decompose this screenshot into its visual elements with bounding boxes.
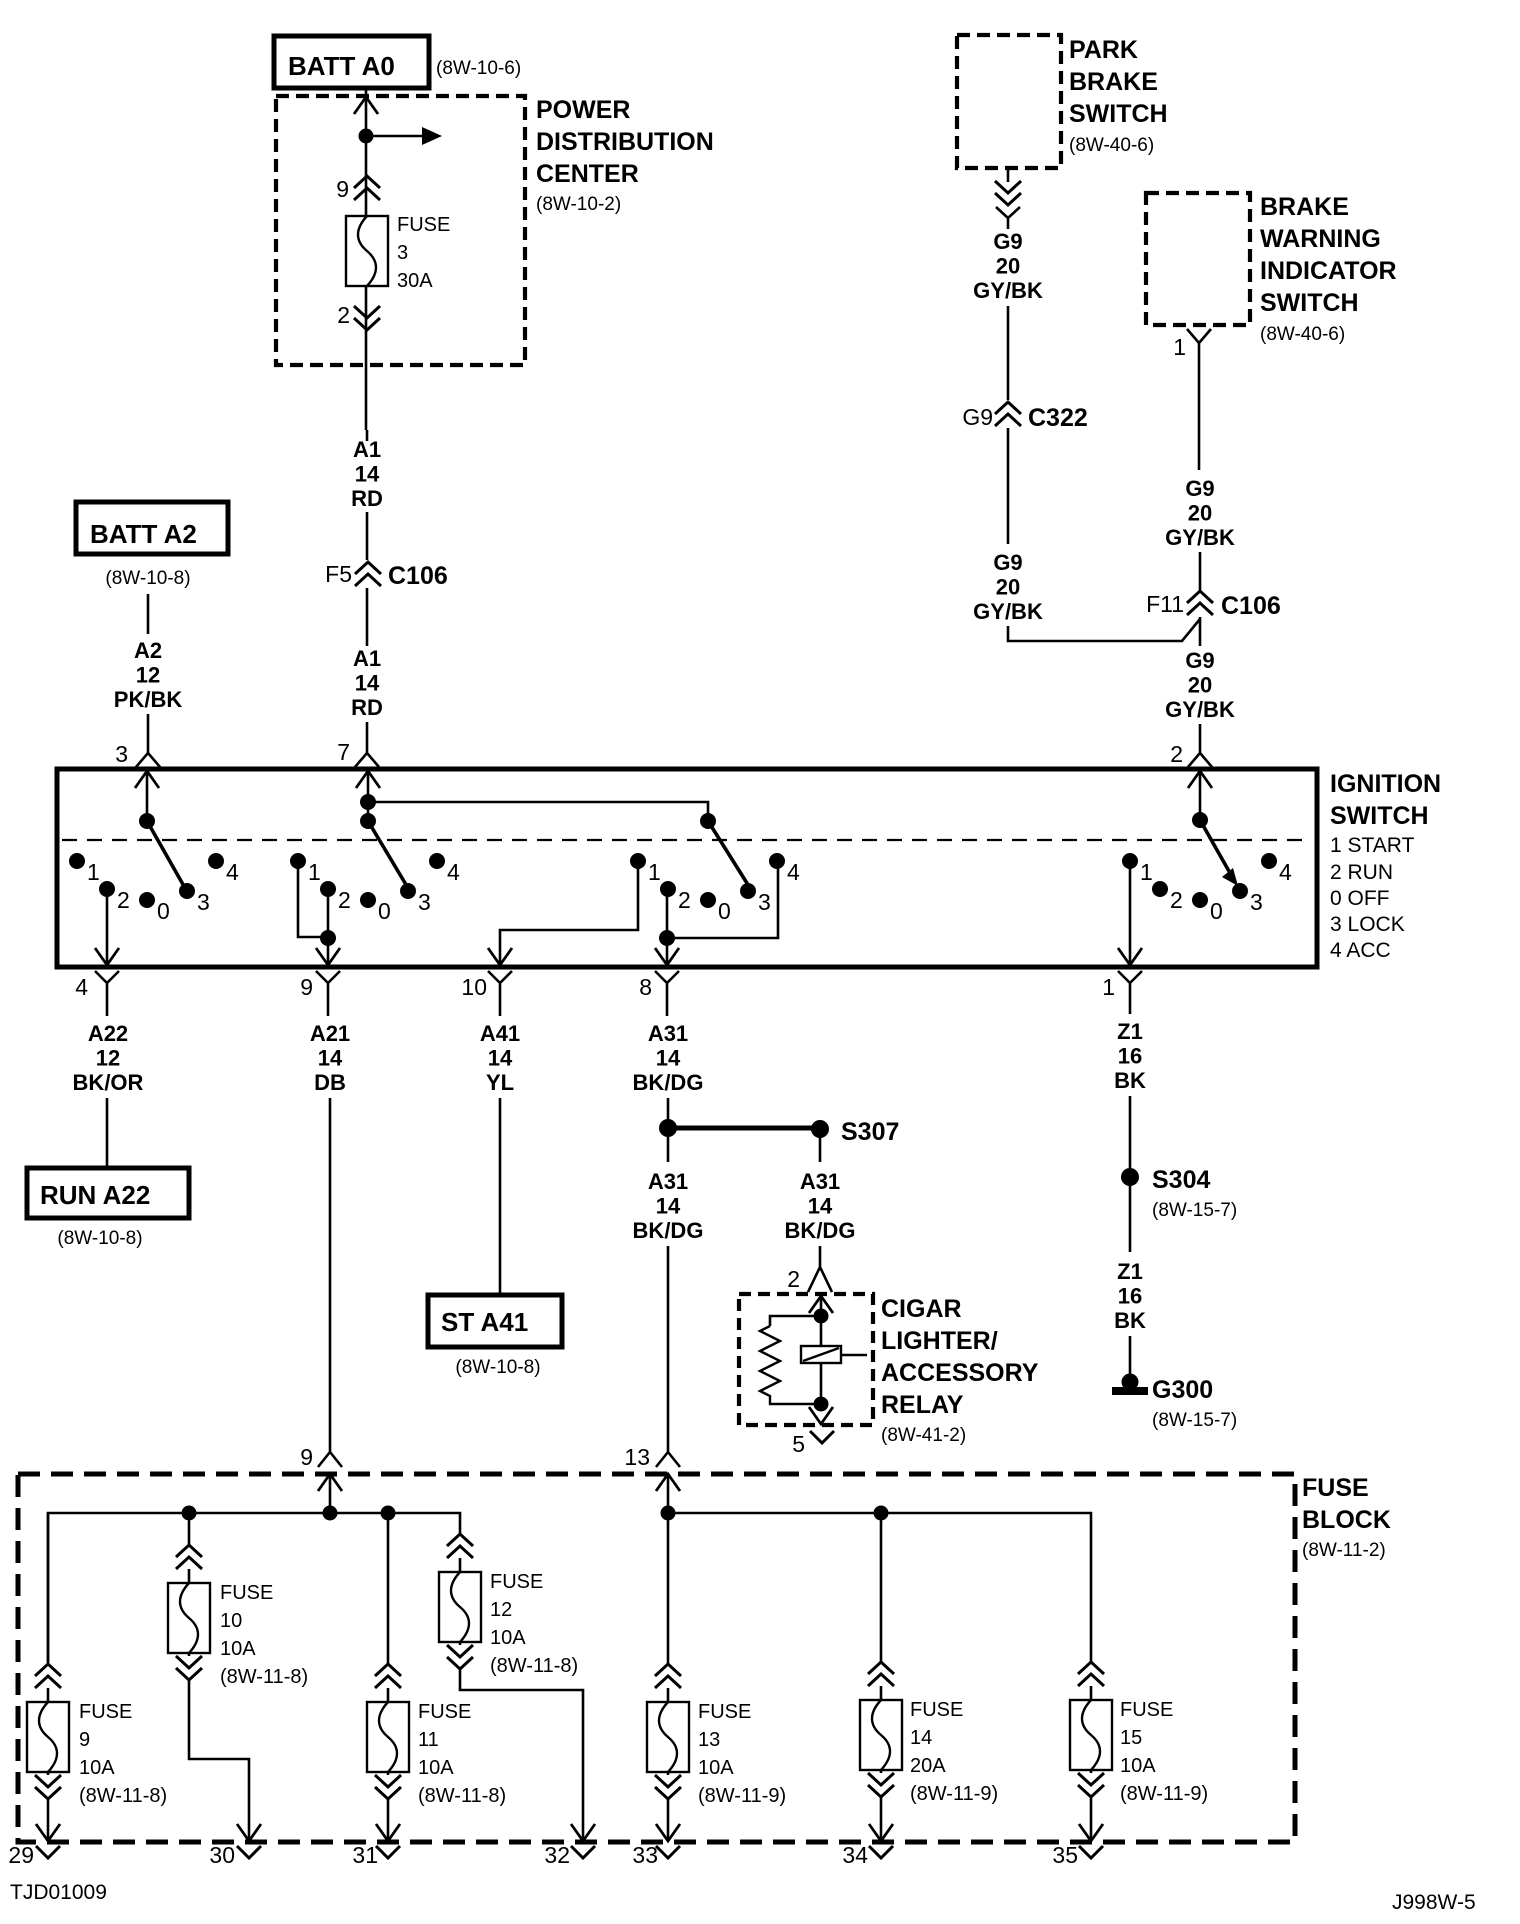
switch wafer 5 feed wire: [1199, 769, 1202, 820]
svg-text:PK/BK: PK/BK: [114, 687, 183, 712]
svg-text:C106: C106: [1221, 592, 1281, 620]
svg-text:9: 9: [300, 974, 313, 1000]
junction dot wafer 4 output: [659, 930, 675, 946]
fuse 9 input connector: [35, 1664, 61, 1688]
node BATT A2 box: [76, 502, 228, 554]
arrow out of relay: [809, 1407, 833, 1424]
contact 2 of switch wafer 3: [660, 881, 676, 897]
wire fuse 14 to cavity 34: [880, 1797, 883, 1841]
svg-text:(8W-11-2): (8W-11-2): [1302, 1540, 1386, 1561]
contact 1 of switch wafer 1: [69, 853, 85, 869]
svg-text:10A: 10A: [418, 1757, 454, 1779]
svg-text:PARK: PARK: [1069, 36, 1138, 64]
svg-text:9: 9: [79, 1729, 90, 1751]
svg-text:FUSE: FUSE: [698, 1701, 751, 1723]
contact 1 of switch wafer 3: [630, 853, 646, 869]
svg-text:20A: 20A: [910, 1755, 946, 1777]
svg-text:FUSE: FUSE: [79, 1701, 132, 1723]
fuse 9: [27, 1702, 69, 1772]
svg-text:RD: RD: [351, 486, 383, 511]
svg-text:0: 0: [718, 898, 731, 924]
svg-text:A21: A21: [310, 1021, 350, 1046]
contact 3 of switch wafer 1: [179, 883, 195, 899]
junction dot A31: [659, 1119, 677, 1137]
wire A31 below junction: [667, 1137, 670, 1162]
svg-text:1: 1: [1140, 859, 1153, 885]
svg-text:BK/DG: BK/DG: [785, 1218, 856, 1243]
wire Z1 to S304: [1129, 1096, 1132, 1168]
svg-text:F11: F11: [1146, 591, 1184, 617]
node ST A41 box: [428, 1295, 562, 1347]
cavity 33 connector: [656, 1846, 680, 1858]
bus junction dot pin 13: [661, 1506, 676, 1521]
svg-text:(8W-10-8): (8W-10-8): [57, 1228, 142, 1249]
svg-text:1 START: 1 START: [1330, 834, 1415, 857]
cavity 31 connector: [376, 1846, 400, 1858]
bus junction dot fuse 14: [874, 1506, 889, 1521]
svg-text:4: 4: [447, 859, 460, 885]
svg-text:3: 3: [115, 741, 128, 767]
svg-text:ACCESSORY: ACCESSORY: [881, 1359, 1039, 1387]
contact 0 of switch wafer 1: [139, 892, 155, 908]
fuse block dashed box: [18, 1474, 1295, 1842]
svg-text:14: 14: [318, 1046, 343, 1071]
wire pin 9 down: [327, 1000, 330, 1016]
wire A31 to splice S307: [667, 1098, 670, 1120]
relay feed wire: [820, 1296, 823, 1404]
wire pin 10 down: [499, 1000, 502, 1016]
fuse 11: [367, 1702, 409, 1772]
svg-text:A22: A22: [88, 1021, 128, 1046]
svg-text:IGNITION: IGNITION: [1330, 770, 1441, 798]
svg-text:YL: YL: [486, 1070, 514, 1095]
contact 0 of switch wafer 5: [1192, 892, 1208, 908]
fuse 12: [439, 1572, 481, 1642]
junction dot wafer 2 output: [320, 930, 336, 946]
switch wafer 5 pivot: [1192, 812, 1208, 828]
switch wafer 4 blade to LOCK: [708, 821, 750, 888]
svg-text:1: 1: [648, 859, 661, 885]
svg-text:10A: 10A: [220, 1638, 256, 1660]
fuse 9 output connector: [35, 1775, 61, 1799]
contact 1 of switch wafer 2: [290, 853, 306, 869]
svg-text:0: 0: [1210, 898, 1223, 924]
svg-text:S307: S307: [841, 1118, 899, 1146]
svg-text:4: 4: [787, 859, 800, 885]
svg-text:SWITCH: SWITCH: [1260, 289, 1359, 317]
svg-text:2: 2: [117, 887, 130, 913]
svg-text:2: 2: [678, 887, 691, 913]
cavity 29 connector: [36, 1846, 60, 1858]
svg-text:G9: G9: [993, 550, 1022, 575]
bus junction dot fuse 11: [381, 1506, 396, 1521]
svg-text:BRAKE: BRAKE: [1069, 68, 1158, 96]
svg-text:(8W-15-7): (8W-15-7): [1152, 1410, 1237, 1431]
svg-text:FUSE: FUSE: [490, 1571, 543, 1593]
svg-text:G9: G9: [1185, 648, 1214, 673]
fuse 14 input connector: [868, 1662, 894, 1686]
svg-text:15: 15: [1120, 1727, 1142, 1749]
relay coil lead to case: [841, 1354, 867, 1357]
wire pin 8 down: [666, 1000, 669, 1016]
svg-text:CENTER: CENTER: [536, 160, 639, 188]
svg-text:Z1: Z1: [1117, 1019, 1143, 1044]
svg-text:BK/DG: BK/DG: [633, 1218, 704, 1243]
svg-text:2 RUN: 2 RUN: [1330, 861, 1393, 884]
fuse 10: [168, 1583, 210, 1653]
wire to C106 F11: [1199, 552, 1202, 591]
svg-text:(8W-10-6): (8W-10-6): [436, 58, 521, 79]
svg-text:GY/BK: GY/BK: [1165, 697, 1235, 722]
wire A31 to fuse block pin 13: [667, 1246, 670, 1442]
svg-text:FUSE: FUSE: [1302, 1474, 1369, 1502]
svg-text:A1: A1: [353, 646, 381, 671]
fuse 13 input connector: [655, 1664, 681, 1688]
svg-text:20: 20: [996, 575, 1020, 600]
svg-text:GY/BK: GY/BK: [973, 599, 1043, 624]
svg-text:BATT A2: BATT A2: [90, 519, 197, 549]
fuse 15 input connector: [1078, 1662, 1104, 1686]
svg-text:BRAKE: BRAKE: [1260, 193, 1349, 221]
svg-text:DB: DB: [314, 1070, 346, 1095]
svg-text:GY/BK: GY/BK: [1165, 525, 1235, 550]
fuse F3 30A: [346, 216, 388, 286]
svg-text:(8W-10-8): (8W-10-8): [105, 568, 190, 589]
ignition switch box: [57, 769, 1317, 967]
svg-text:BK/OR: BK/OR: [73, 1070, 144, 1095]
svg-text:10: 10: [461, 974, 487, 1000]
fuse 10 output connector: [176, 1656, 202, 1680]
wire into relay pin 2: [819, 1246, 822, 1252]
wire contact 1 to junction wafer 2: [298, 866, 328, 937]
svg-text:F5: F5: [325, 561, 352, 587]
svg-text:Z1: Z1: [1117, 1259, 1143, 1284]
switch wafer 1 blade to LOCK: [147, 821, 185, 888]
wire fuse 11 to cavity 31: [387, 1799, 390, 1841]
svg-text:(8W-11-9): (8W-11-9): [1120, 1783, 1208, 1805]
wire A1 to connector C106: [366, 512, 369, 560]
svg-text:13: 13: [624, 1444, 650, 1470]
relay top junction dot: [814, 1309, 829, 1324]
wire pin 1 down: [1129, 1000, 1132, 1014]
svg-text:(8W-40-6): (8W-40-6): [1260, 324, 1345, 345]
switch wafer 1 feed wire: [146, 769, 149, 821]
svg-text:14: 14: [656, 1194, 681, 1219]
svg-text:4: 4: [226, 859, 239, 885]
svg-text:A41: A41: [480, 1021, 520, 1046]
svg-text:0: 0: [157, 898, 170, 924]
fuse block left bus wire: [48, 1513, 460, 1662]
fuse 11 output connector: [375, 1775, 401, 1799]
svg-text:G9: G9: [1185, 476, 1214, 501]
svg-text:3: 3: [758, 889, 771, 915]
wire S304 down: [1129, 1186, 1132, 1252]
wire into pin 7: [366, 722, 369, 744]
svg-text:12: 12: [136, 663, 160, 688]
wire into pin 2: [1199, 724, 1202, 744]
svg-text:2: 2: [337, 302, 350, 328]
svg-text:FUSE: FUSE: [397, 214, 450, 236]
svg-text:8: 8: [639, 974, 652, 1000]
wire junction to contact 4: [667, 866, 778, 938]
svg-text:10A: 10A: [490, 1627, 526, 1649]
fuse block right bus wire: [668, 1513, 1091, 1658]
svg-text:GY/BK: GY/BK: [973, 278, 1043, 303]
svg-text:FUSE: FUSE: [1120, 1699, 1173, 1721]
svg-text:(8W-41-2): (8W-41-2): [881, 1425, 966, 1446]
bus junction dot pin 9: [323, 1506, 338, 1521]
svg-text:3: 3: [1250, 889, 1263, 915]
relay bottom junction dot: [814, 1397, 829, 1412]
wire fuse 15 to cavity 35: [1090, 1797, 1093, 1841]
svg-text:J998W-5: J998W-5: [1392, 1891, 1476, 1914]
splice S304 dot: [1121, 1168, 1139, 1186]
relay coil resistor: [770, 1316, 821, 1326]
brake warning indicator switch dashed box: [1146, 193, 1250, 325]
svg-text:INDICATOR: INDICATOR: [1260, 257, 1397, 285]
svg-text:C322: C322: [1028, 404, 1088, 432]
wire contact 2 to pin 9: [327, 892, 330, 966]
fuse 14 output connector: [868, 1773, 894, 1797]
svg-text:29: 29: [8, 1842, 34, 1868]
wire fuse 10 to cavity 30: [189, 1680, 249, 1841]
svg-text:A1: A1: [353, 437, 381, 462]
contact 4 of switch wafer 2: [429, 853, 445, 869]
svg-text:1: 1: [87, 859, 100, 885]
relay coil: [801, 1346, 841, 1363]
wire contact 2 to pin 4: [106, 892, 109, 966]
svg-text:3 LOCK: 3 LOCK: [1330, 913, 1405, 936]
svg-text:7: 7: [337, 739, 350, 765]
svg-text:5: 5: [792, 1431, 805, 1457]
wire to ground G300: [1129, 1336, 1132, 1376]
svg-text:2: 2: [338, 887, 351, 913]
svg-text:TJD01009: TJD01009: [10, 1881, 107, 1904]
svg-text:3: 3: [197, 889, 210, 915]
switch wafer 5 blade arrow to LOCK: [1200, 820, 1230, 873]
svg-text:(8W-11-9): (8W-11-9): [698, 1785, 786, 1807]
switch wafer 2 feed wire: [367, 769, 370, 821]
svg-text:10: 10: [220, 1610, 242, 1632]
cigar lighter accessory relay dashed box: [739, 1294, 873, 1425]
svg-text:34: 34: [842, 1842, 868, 1868]
wire A21 to fuse block pin 9: [329, 1098, 332, 1442]
wire contact 2 to pin 8: [666, 892, 669, 966]
arrow into fuse block pin 13: [656, 1474, 680, 1491]
wire pin 4 to RUN A22: [106, 1000, 109, 1016]
svg-text:(8W-11-9): (8W-11-9): [910, 1783, 998, 1805]
svg-text:BK: BK: [1114, 1068, 1146, 1093]
wire C106 F11 down: [1199, 617, 1202, 646]
svg-text:4 ACC: 4 ACC: [1330, 939, 1391, 962]
contact 0 of switch wafer 2: [360, 892, 376, 908]
svg-text:2: 2: [1170, 741, 1183, 767]
svg-text:A2: A2: [134, 638, 162, 663]
wire contact 1 to pin 1: [1129, 866, 1132, 966]
svg-text:(8W-10-8): (8W-10-8): [455, 1357, 540, 1378]
svg-text:S304: S304: [1152, 1166, 1210, 1194]
svg-text:9: 9: [300, 1444, 313, 1470]
svg-text:FUSE: FUSE: [418, 1701, 471, 1723]
svg-text:1: 1: [1173, 334, 1186, 360]
svg-text:10A: 10A: [79, 1757, 115, 1779]
svg-text:G9: G9: [962, 404, 993, 430]
svg-text:A31: A31: [648, 1021, 688, 1046]
svg-text:30A: 30A: [397, 270, 433, 292]
svg-text:(8W-40-6): (8W-40-6): [1069, 135, 1154, 156]
svg-text:20: 20: [996, 254, 1020, 279]
switch wafer 2 blade to LOCK: [368, 821, 408, 888]
svg-text:31: 31: [352, 1842, 378, 1868]
park brake switch dashed box: [957, 35, 1061, 168]
svg-text:(8W-11-8): (8W-11-8): [418, 1785, 506, 1807]
svg-text:RD: RD: [351, 695, 383, 720]
svg-text:13: 13: [698, 1729, 720, 1751]
svg-text:A31: A31: [800, 1169, 840, 1194]
svg-text:14: 14: [808, 1194, 833, 1219]
svg-text:9: 9: [336, 176, 349, 202]
junction dot in PDC: [359, 129, 374, 144]
node RUN A22 box: [27, 1168, 189, 1218]
wire C106 to ignition switch pin 7: [366, 588, 369, 646]
svg-text:14: 14: [656, 1046, 681, 1071]
contact 3 of switch wafer 3: [740, 883, 756, 899]
arrow into BATT A0: [354, 97, 378, 114]
svg-text:30: 30: [209, 1842, 235, 1868]
contact 4 of switch wafer 5: [1261, 853, 1277, 869]
fuse 13 output connector: [655, 1775, 681, 1799]
contact 4 of switch wafer 1: [208, 853, 224, 869]
wire G9 to C322: [1007, 306, 1010, 400]
svg-text:32: 32: [544, 1842, 570, 1868]
svg-text:35: 35: [1052, 1842, 1078, 1868]
switch wafer 2 pivot: [360, 813, 376, 829]
svg-text:(8W-11-8): (8W-11-8): [79, 1785, 167, 1807]
svg-text:(8W-11-8): (8W-11-8): [490, 1655, 578, 1677]
wire C322 down: [1007, 428, 1010, 544]
svg-text:0 OFF: 0 OFF: [1330, 887, 1390, 910]
switch wafer 4 pivot: [700, 813, 716, 829]
switch wafer 1 pivot: [139, 813, 155, 829]
wire BATT A2 down: [147, 594, 150, 634]
svg-text:2: 2: [1170, 887, 1183, 913]
cavity 35 connector: [1079, 1846, 1103, 1858]
svg-text:ST A41: ST A41: [441, 1307, 528, 1337]
svg-text:1: 1: [1102, 974, 1115, 1000]
svg-text:BK: BK: [1114, 1308, 1146, 1333]
contact 0 of switch wafer 3: [700, 892, 716, 908]
svg-text:RUN A22: RUN A22: [40, 1180, 150, 1210]
wire fuse 13 to cavity 33: [667, 1799, 670, 1841]
svg-text:12: 12: [96, 1046, 120, 1071]
node BATT A0 box: [274, 36, 429, 88]
fuse 12 input connector: [447, 1534, 473, 1558]
svg-text:DISTRIBUTION: DISTRIBUTION: [536, 128, 714, 156]
cavity 32 connector: [571, 1846, 595, 1858]
svg-text:2: 2: [787, 1266, 800, 1292]
contact 2 of switch wafer 5: [1152, 881, 1168, 897]
wire brake warning down: [1198, 360, 1201, 470]
svg-text:FUSE: FUSE: [910, 1699, 963, 1721]
svg-text:C106: C106: [388, 562, 448, 590]
svg-text:SWITCH: SWITCH: [1069, 100, 1168, 128]
svg-text:3: 3: [397, 242, 408, 264]
svg-text:POWER: POWER: [536, 96, 630, 124]
cavity 30 connector: [237, 1846, 261, 1858]
svg-text:16: 16: [1118, 1284, 1142, 1309]
svg-text:(8W-11-8): (8W-11-8): [220, 1666, 308, 1688]
svg-text:20: 20: [1188, 501, 1212, 526]
wire into pin 3: [147, 714, 150, 744]
ground G300: [1122, 1374, 1139, 1391]
wire fuse 12 to cavity 32: [460, 1669, 583, 1841]
wire splice S307 tie: [668, 1126, 820, 1131]
wire fuse 9 to cavity 29: [47, 1799, 50, 1841]
svg-text:(8W-15-7): (8W-15-7): [1152, 1200, 1237, 1221]
cavity 34 connector: [869, 1846, 893, 1858]
svg-text:FUSE: FUSE: [220, 1582, 273, 1604]
svg-text:RELAY: RELAY: [881, 1391, 964, 1419]
svg-text:1: 1: [308, 859, 321, 885]
fuse 15 output connector: [1078, 1773, 1104, 1797]
bus junction dot fuse 10: [182, 1506, 197, 1521]
wire A41 to ST A41: [499, 1098, 502, 1295]
fuse 11 input connector: [375, 1664, 401, 1688]
svg-text:G300: G300: [1152, 1376, 1213, 1404]
fuse 12 output connector: [447, 1645, 473, 1669]
contact 2 of switch wafer 2: [320, 881, 336, 897]
svg-text:33: 33: [632, 1842, 658, 1868]
svg-text:3: 3: [418, 889, 431, 915]
svg-text:14: 14: [355, 462, 380, 487]
contact 3 of switch wafer 5: [1232, 883, 1248, 899]
svg-text:20: 20: [1188, 673, 1212, 698]
junction to wafer 4 feed: [360, 794, 376, 810]
fuse 14: [860, 1700, 902, 1770]
svg-text:14: 14: [910, 1727, 932, 1749]
svg-text:10A: 10A: [698, 1757, 734, 1779]
svg-text:BATT A0: BATT A0: [288, 51, 395, 81]
svg-text:(8W-10-2): (8W-10-2): [536, 194, 621, 215]
svg-text:WARNING: WARNING: [1260, 225, 1381, 253]
fuse 15: [1070, 1700, 1112, 1770]
ignition switch common dashed line: [62, 839, 1312, 841]
svg-text:14: 14: [488, 1046, 513, 1071]
wire wafer 4 contact 1 to pin 10: [500, 866, 638, 966]
fuse 10 input connector: [176, 1545, 202, 1569]
svg-text:BLOCK: BLOCK: [1302, 1506, 1391, 1534]
park brake switch connector: [1007, 168, 1010, 182]
svg-text:G9: G9: [993, 229, 1022, 254]
wire BATT A0 to fuse 3: [365, 88, 368, 216]
branch arrow to other circuits: [366, 135, 426, 138]
svg-text:11: 11: [418, 1729, 439, 1751]
arrow into fuse block pin 9: [318, 1474, 342, 1491]
svg-text:BK/DG: BK/DG: [633, 1070, 704, 1095]
svg-text:10A: 10A: [1120, 1755, 1156, 1777]
contact 2 of switch wafer 1: [99, 881, 115, 897]
svg-text:12: 12: [490, 1599, 512, 1621]
svg-text:16: 16: [1118, 1044, 1142, 1069]
wire park brake joining C106 F11: [1008, 619, 1200, 641]
svg-text:4: 4: [1279, 859, 1292, 885]
contact 1 of switch wafer 5: [1122, 853, 1138, 869]
wire S307 branch down: [819, 1137, 822, 1162]
svg-text:SWITCH: SWITCH: [1330, 802, 1429, 830]
svg-text:A31: A31: [648, 1169, 688, 1194]
svg-text:LIGHTER/: LIGHTER/: [881, 1327, 998, 1355]
power distribution center dashed box: [276, 96, 525, 365]
